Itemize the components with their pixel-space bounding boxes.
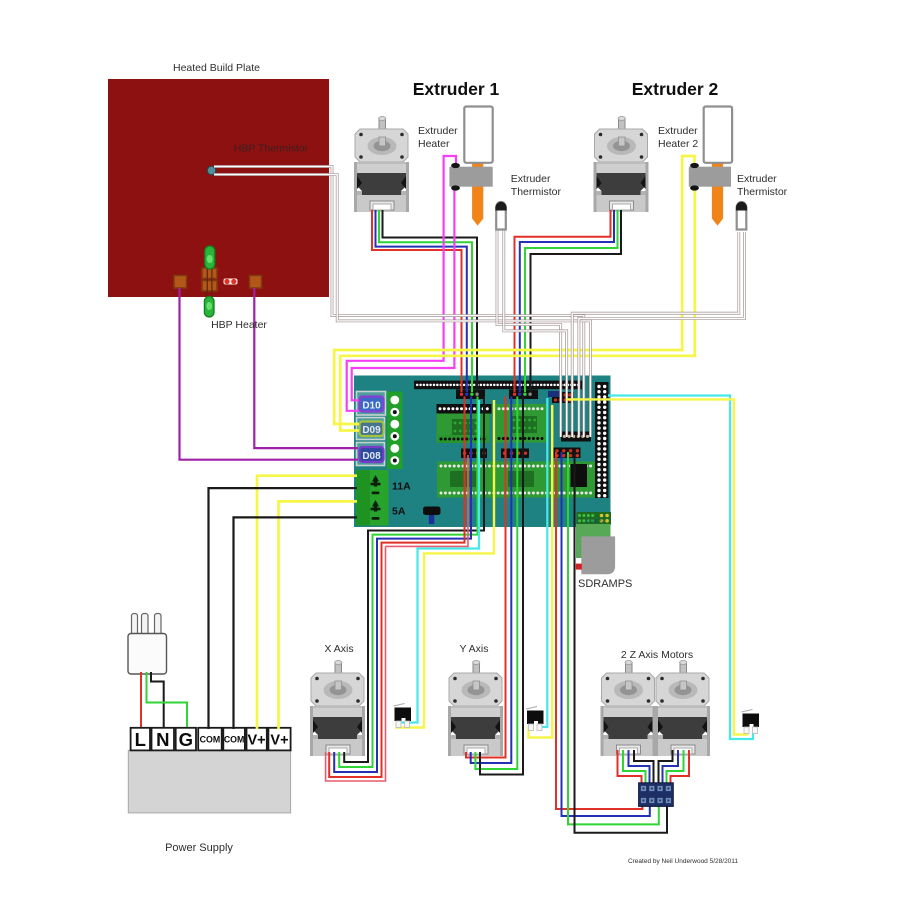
stepper motor X axis xyxy=(310,661,365,757)
wire X motor black xyxy=(344,397,484,763)
svg-text:Heater 2: Heater 2 xyxy=(658,138,698,150)
svg-text:Extruder 1: Extruder 1 xyxy=(413,79,500,99)
motor header ext1 top xyxy=(456,390,485,400)
wire extruder heater2 yellow B xyxy=(340,189,695,431)
D10 connector xyxy=(357,392,386,416)
svg-text:D08: D08 xyxy=(362,451,381,462)
svg-text:Y Axis: Y Axis xyxy=(460,643,489,655)
wire Z motor2 green xyxy=(667,750,684,786)
wire ext1 motor green xyxy=(379,210,472,392)
extruder2 heater block xyxy=(689,167,731,187)
svg-text:G: G xyxy=(179,729,193,750)
stepper motor Z1 xyxy=(601,661,656,757)
wire Z motor1 red xyxy=(618,750,642,786)
wire 11A+ yellow to PSU xyxy=(257,476,357,729)
wire Y motor black xyxy=(480,397,523,775)
wire X endstop yellow xyxy=(397,400,495,728)
wire extruder heater2 yellow A xyxy=(334,156,694,424)
board mosfet output hole strip xyxy=(387,392,403,470)
stepper driver socket upper right xyxy=(496,404,548,443)
wire HBP heater purple left xyxy=(180,288,359,460)
wire Y endstop cyan xyxy=(540,398,548,727)
svg-text:Extruder: Extruder xyxy=(658,125,698,137)
endstop X xyxy=(394,704,412,728)
HBP heater pad left xyxy=(174,276,187,289)
HBP small resistor xyxy=(224,279,238,285)
D08 connector xyxy=(357,443,385,466)
endstop Y xyxy=(526,707,544,731)
motor header ext2 top xyxy=(509,390,538,400)
svg-text:Extruder: Extruder xyxy=(511,173,551,185)
reset button xyxy=(423,507,441,516)
svg-text:HBP Heater: HBP Heater xyxy=(211,319,267,331)
stepper motor Y axis xyxy=(448,661,503,757)
motor header X bottom xyxy=(461,449,487,459)
wire Z endstop cyan xyxy=(608,396,753,740)
HBP heater center pads xyxy=(202,268,217,279)
motor header Y bottom xyxy=(501,449,529,459)
HBP thermistor bead xyxy=(207,166,215,174)
wire ext2 thermistor pair xyxy=(572,232,739,437)
wire Z endstop yellow xyxy=(566,399,747,734)
svg-text:Thermistor: Thermistor xyxy=(737,186,788,198)
power input terminal block 11A 5A xyxy=(356,470,389,526)
svg-text:Extruder: Extruder xyxy=(418,125,458,137)
wire Z bundle blue xyxy=(562,452,650,816)
extruder2 nozzle xyxy=(712,158,723,226)
wire ext1 motor black xyxy=(383,210,478,392)
Z axis terminal block xyxy=(639,783,674,807)
svg-text:D10: D10 xyxy=(362,401,381,412)
thermistor input header xyxy=(552,392,574,403)
stepper motor Z2 xyxy=(655,661,710,757)
D09 connector xyxy=(357,418,385,440)
motor header Z bottom xyxy=(554,448,581,459)
svg-text:Extruder: Extruder xyxy=(737,173,777,185)
HBP LED component xyxy=(207,258,212,302)
wire 5A- black to PSU xyxy=(234,517,358,729)
svg-text:5A: 5A xyxy=(392,506,406,518)
extruder1 thermistor xyxy=(495,202,506,230)
wire Z bundle black xyxy=(575,452,668,833)
wire X motor blue xyxy=(334,397,471,773)
svg-text:Created by Neil Underwood 5/28: Created by Neil Underwood 5/28/2011 xyxy=(628,858,738,865)
board top pin header xyxy=(414,381,582,390)
wire Z bundle green xyxy=(568,452,659,824)
servo header mid right xyxy=(561,432,591,442)
endstop Z xyxy=(742,710,760,734)
wire X motor green xyxy=(339,397,477,768)
wire Y endstop yellow xyxy=(529,405,553,738)
power supply plug xyxy=(132,614,138,636)
svg-text:Heater: Heater xyxy=(418,138,450,150)
wire ext2 motor red xyxy=(515,210,611,392)
wire Z bundle red xyxy=(556,452,642,809)
extruder1 heater cartridge xyxy=(464,107,492,163)
svg-text:SDRAMPS: SDRAMPS xyxy=(578,578,632,590)
wire X motor crimson xyxy=(326,546,386,781)
RAMPS board xyxy=(354,376,611,528)
svg-text:11A: 11A xyxy=(392,481,411,493)
wire ext2 motor green xyxy=(525,210,618,392)
svg-text:X Axis: X Axis xyxy=(324,643,353,655)
power supply body xyxy=(128,750,290,813)
stepper driver socket row bottom xyxy=(437,462,596,498)
svg-text:L: L xyxy=(135,729,146,750)
wire HBP heater purple right xyxy=(254,288,358,448)
wire ext1 thermistor pair xyxy=(497,228,561,437)
wire 5A+ yellow to PSU xyxy=(279,501,358,729)
wire Z motor2 red xyxy=(671,750,690,786)
wire ext2 motor blue xyxy=(520,210,614,392)
wire Y motor red xyxy=(466,397,506,758)
svg-text:V+: V+ xyxy=(270,732,288,748)
wire extruder heater1 magenta B xyxy=(352,189,455,401)
svg-text:COM: COM xyxy=(200,734,221,744)
wire X endstop cyan xyxy=(401,400,479,723)
svg-text:HBP Thermistor: HBP Thermistor xyxy=(234,143,309,155)
heated build plate xyxy=(108,79,329,297)
wire 11A- black to PSU xyxy=(209,488,358,729)
svg-text:N: N xyxy=(156,729,169,750)
stepper motor extruder1 xyxy=(354,117,409,213)
HBP heater pad right xyxy=(250,276,262,289)
extruder1 nozzle xyxy=(472,158,483,226)
wire ext1 motor blue xyxy=(376,210,467,392)
aux header bottom right xyxy=(577,512,612,525)
svg-text:Power Supply: Power Supply xyxy=(165,842,233,854)
extruder1 heater block xyxy=(449,167,492,187)
wire Z motor1 black xyxy=(634,750,654,786)
svg-text:Heated Build Plate: Heated Build Plate xyxy=(173,62,260,74)
wire Z motor1 blue xyxy=(629,750,650,786)
arduino double pin column right xyxy=(595,382,609,498)
svg-text:Thermistor: Thermistor xyxy=(511,186,562,198)
svg-text:COM: COM xyxy=(224,734,245,744)
wire Y motor green xyxy=(475,397,517,770)
wire HBP thermistor pair xyxy=(214,167,584,438)
stepper driver socket upper left xyxy=(437,404,492,414)
wire ext2 motor black xyxy=(531,210,622,392)
svg-text:V+: V+ xyxy=(248,732,266,748)
driver chip xyxy=(571,464,588,487)
SDRAMPS module xyxy=(576,524,611,537)
wire ext1 motor red xyxy=(372,210,462,392)
extruder2 thermistor xyxy=(736,202,747,230)
wire Z motor2 black xyxy=(659,750,673,786)
wire Z motor1 green xyxy=(623,750,646,786)
wire extruder heater1 magenta A xyxy=(347,156,456,411)
wire Y motor blue xyxy=(471,397,512,764)
svg-text:2 Z Axis Motors: 2 Z Axis Motors xyxy=(621,649,693,661)
wire Z motor2 blue xyxy=(663,750,679,786)
svg-text:D09: D09 xyxy=(362,425,381,436)
extruder2 heater cartridge xyxy=(704,107,732,163)
power supply plug wires xyxy=(140,672,142,729)
power supply terminal strip xyxy=(131,728,150,751)
svg-text:Extruder 2: Extruder 2 xyxy=(632,79,719,99)
wire X motor red xyxy=(329,397,464,778)
stepper motor extruder2 xyxy=(594,117,649,213)
